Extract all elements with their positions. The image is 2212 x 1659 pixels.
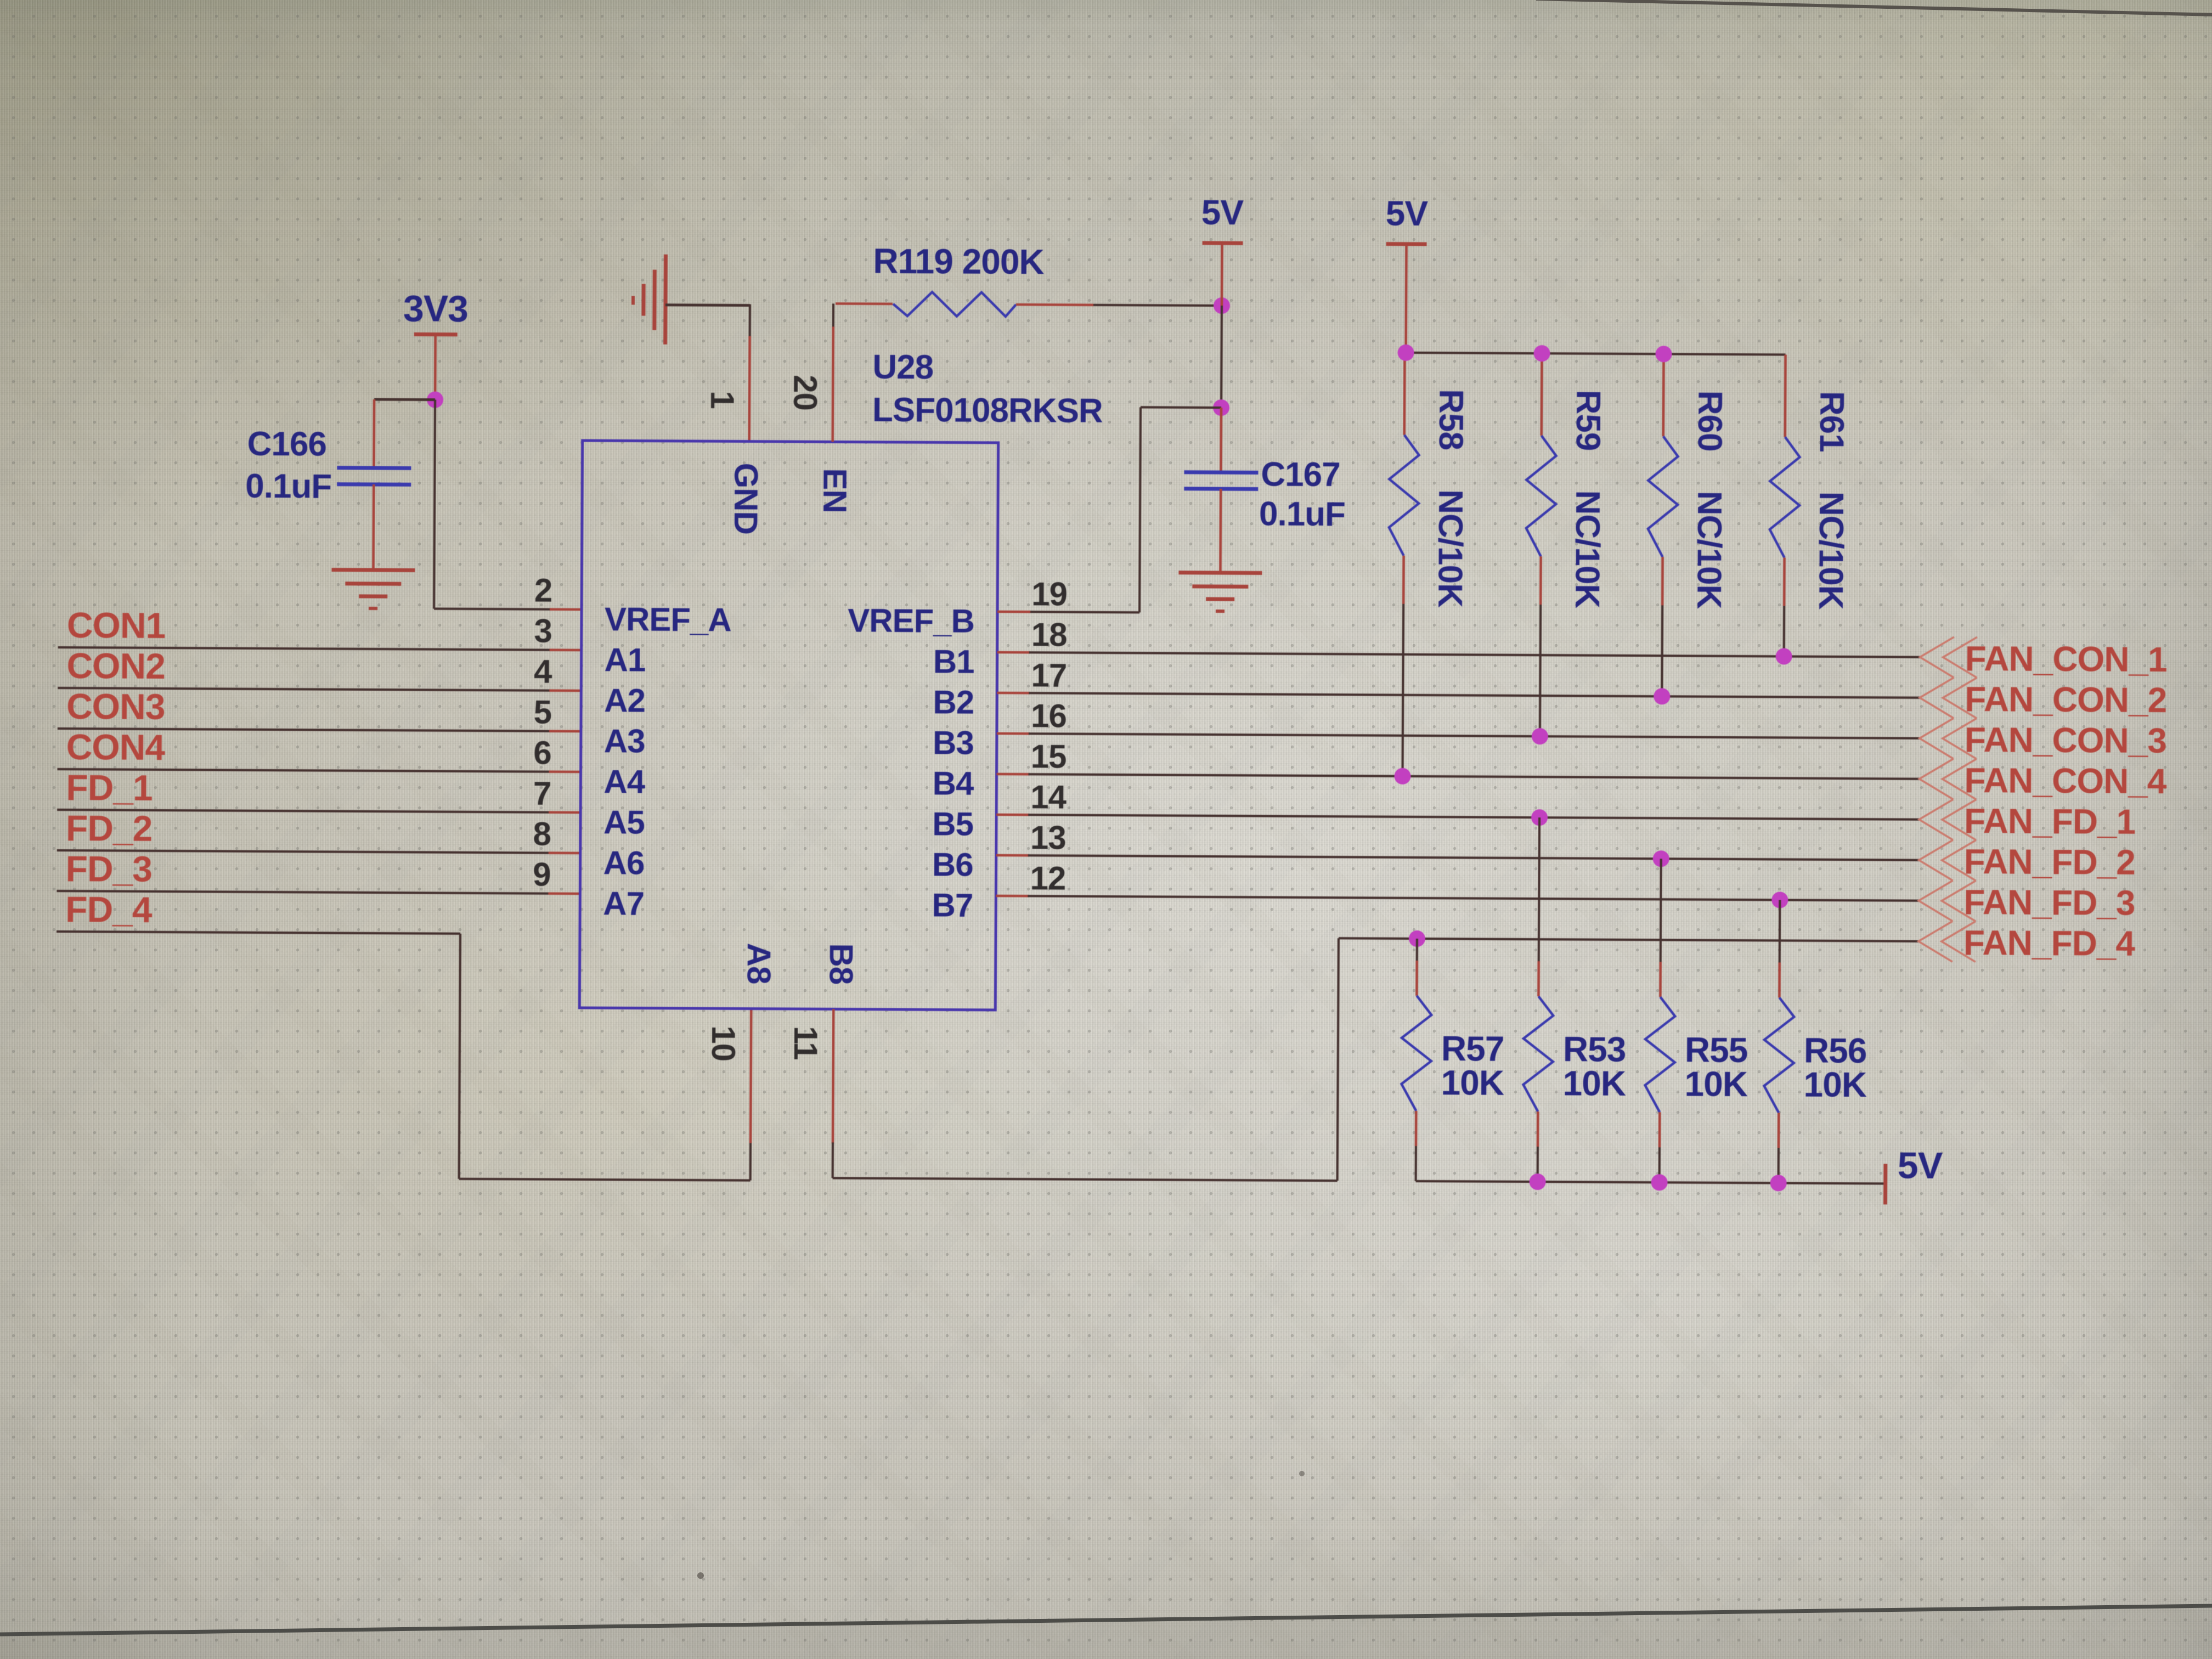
wire net CON4 xyxy=(58,769,549,772)
ground (rotated, at U28 pin 1) xyxy=(663,255,668,345)
pin 7 stub xyxy=(549,811,580,814)
wire net FAN_CON_2 xyxy=(1029,693,1920,698)
power symbol 5V (bottom, rotated) xyxy=(1883,1164,1887,1204)
node: 3V3 junction xyxy=(427,392,443,408)
screen edge line (top right) xyxy=(1536,0,2212,15)
resistor R61 NC/10K xyxy=(1784,354,1786,437)
wire: 5V node down to VREF_B junction xyxy=(1220,306,1223,408)
wire: 3V3 to U28 pin 2 (VREF_A) xyxy=(434,400,435,609)
ground xyxy=(1178,571,1262,575)
node R57/row junction xyxy=(1409,930,1425,947)
off-page connector FAN_CON_2 xyxy=(1920,678,1954,718)
wire net FAN_FD_2 xyxy=(1028,855,1919,860)
pin 13 stub xyxy=(996,854,1029,857)
pin 9 stub xyxy=(548,892,580,895)
dust speck xyxy=(697,1572,704,1579)
node R59/row junction xyxy=(1532,728,1548,744)
wire: pin 11 to FAN_FD_4 riser xyxy=(833,1178,1338,1181)
pin 11 stub (B8) xyxy=(833,1009,833,1143)
pin 14 stub xyxy=(996,814,1029,816)
node: VREF_B junction xyxy=(1213,399,1229,416)
resistor R60 NC/10K xyxy=(1662,354,1664,436)
node R55/row junction xyxy=(1653,850,1669,867)
wire: 3V3 to C166 xyxy=(374,398,435,402)
pin 4 stub xyxy=(549,689,581,692)
pin 1 stub xyxy=(749,336,750,442)
pin 6 stub xyxy=(549,770,581,773)
pin 5 stub xyxy=(549,730,581,732)
wire net FD_1 xyxy=(57,810,549,812)
wire: junction to VREF_B pin 19 xyxy=(1141,406,1221,409)
pin 3 stub xyxy=(550,648,582,651)
wire net CON3 xyxy=(58,729,549,731)
node R53/row junction xyxy=(1531,809,1548,826)
wire net CON2 xyxy=(58,688,549,691)
pin 20 stub (EN) xyxy=(832,303,834,328)
off-page connector FAN_CON_1 xyxy=(1920,637,1954,678)
wire net FAN_CON_4 xyxy=(1029,774,1920,779)
node R60/row junction xyxy=(1654,688,1670,704)
wire net FAN_FD_3 xyxy=(1028,896,1918,901)
wire net FAN_CON_3 xyxy=(1029,733,1920,738)
pin 8 stub xyxy=(549,851,580,854)
pin 19 stub xyxy=(997,611,1030,613)
wire: bottom 5V rail xyxy=(1416,1181,1886,1183)
pin 16 stub xyxy=(997,732,1030,735)
node R56/row junction xyxy=(1771,891,1788,908)
wire net FD_3 xyxy=(57,891,548,894)
pin 17 stub xyxy=(997,692,1030,695)
shade below bottom screen edge xyxy=(0,1607,2212,1659)
wire net FD_2 xyxy=(57,850,549,853)
pin 10 stub xyxy=(751,1009,751,1143)
off-page connector FAN_FD_2 xyxy=(1919,840,1953,881)
node: R119/5V junction xyxy=(1214,297,1230,314)
wire net FAN_CON_1 xyxy=(1029,652,1920,657)
capacitor C166 0.1uF xyxy=(373,399,375,467)
dust speck xyxy=(1299,1471,1305,1476)
off-page connector FAN_FD_1 xyxy=(1919,799,1953,840)
ground xyxy=(331,568,415,572)
pin 2 stub xyxy=(550,608,582,611)
off-page connector FAN_CON_4 xyxy=(1919,759,1953,799)
off-page connector FAN_FD_3 xyxy=(1918,881,1953,921)
resistor R59 NC/10K xyxy=(1540,353,1543,436)
wire net FAN_FD_4 xyxy=(1339,938,1918,941)
screen edge line (bottom) xyxy=(0,1606,2212,1634)
pin 18 stub xyxy=(997,651,1030,654)
wire: ground to U28 pin 1 xyxy=(665,303,750,307)
pin 12 stub xyxy=(996,895,1029,898)
node R61/row junction xyxy=(1776,648,1792,664)
resistor R58 NC/10K xyxy=(1403,353,1406,435)
IC U28 LSF0108RKSR body xyxy=(579,441,998,1010)
node: 5V rail junctions xyxy=(1397,345,1414,361)
wire net FD_4 to U28 pin 10 (A8) xyxy=(57,932,460,934)
node: bottom rail junctions xyxy=(1530,1173,1546,1190)
off-page connector FAN_CON_3 xyxy=(1920,718,1954,759)
node R58/row junction xyxy=(1394,768,1410,785)
wire net FAN_FD_1 xyxy=(1028,815,1919,820)
wire: R119 to 5V node xyxy=(1093,305,1222,306)
off-page connector FAN_FD_4 xyxy=(1918,921,1953,962)
capacitor C167 0.1uF xyxy=(1220,408,1222,471)
wire: 5V rail (top resistor bank) xyxy=(1406,353,1786,355)
pin 15 stub xyxy=(997,773,1030,776)
wire net CON1 xyxy=(58,647,550,650)
